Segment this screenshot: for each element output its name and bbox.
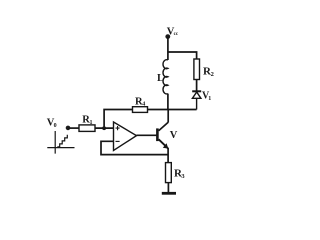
- svg-text:0: 0: [54, 123, 57, 129]
- waveform staircase: [57, 135, 67, 147]
- wire opamp output to base: [137, 134, 157, 136]
- wire V0 to R1: [68, 127, 79, 129]
- wire collector up to middle node: [167, 110, 169, 123]
- opamp plus marking: [116, 126, 120, 130]
- transistor V: [157, 122, 168, 148]
- node Vcc terminal dot: [165, 34, 170, 39]
- wire top branch to R2: [168, 52, 197, 59]
- inductor L: [163, 60, 168, 94]
- svg-text:cc: cc: [174, 32, 179, 37]
- node V0 input terminal dot: [66, 126, 71, 131]
- node junction dot at + input: [102, 126, 106, 130]
- resistor R2: [194, 59, 200, 80]
- svg-text:2: 2: [211, 71, 214, 78]
- ground: [162, 192, 176, 195]
- wire emitter down to R3: [167, 148, 169, 163]
- svg-text:1: 1: [90, 120, 93, 126]
- svg-text:4: 4: [142, 102, 145, 108]
- svg-text:V: V: [170, 130, 178, 141]
- resistor R4: [133, 107, 148, 113]
- wire R4 left to opamp + input: [104, 110, 132, 129]
- wire R1 to opamp: [95, 127, 114, 129]
- waveform icon axes: [47, 131, 74, 154]
- resistor R3: [166, 163, 172, 183]
- svg-text:L: L: [157, 73, 164, 84]
- wire R3 to ground: [167, 183, 169, 193]
- wire inductor bottom to middle node: [167, 94, 169, 110]
- svg-text:1: 1: [208, 96, 211, 102]
- opamp minus marking: [116, 140, 120, 142]
- op-amp U1: [114, 122, 137, 151]
- svg-text:3: 3: [181, 173, 185, 180]
- wire R2 to diode: [196, 80, 198, 92]
- wire inverting input feedback to emitter: [101, 141, 168, 154]
- diode V1: [192, 91, 201, 109]
- wire middle horizontal (node to diode branch): [148, 109, 197, 111]
- resistor R1: [79, 125, 95, 131]
- wire Vcc down to inductor top: [167, 37, 169, 61]
